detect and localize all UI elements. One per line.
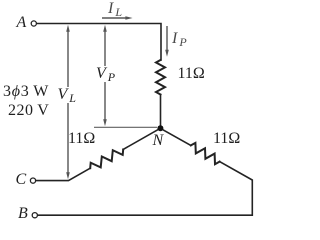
terminal A (31, 21, 36, 26)
voltage arrow VP (double-headed) (104, 30, 106, 121)
label terminal C (16, 172, 27, 188)
terminal C (30, 178, 35, 183)
label source rating 3-phase 3-wire (3, 84, 49, 100)
voltage arrow VL (double-headed) (67, 30, 69, 174)
current arrow IL (102, 17, 127, 19)
label source voltage 220V (8, 103, 49, 119)
node N junction dot (157, 125, 163, 131)
label resistor value 11ohm (right) (213, 131, 240, 147)
wire: node N to right resistor (160, 128, 191, 145)
wire: right resistor to corner, down, and bottom wire to terminal B (38, 162, 252, 216)
label terminal B (18, 206, 28, 222)
label resistor value 11ohm (vertical) (178, 66, 205, 82)
resistor R-A 11ohm (vertical zigzag) (156, 60, 165, 95)
label current IP (172, 31, 187, 47)
resistor R-B 11ohm (right diagonal zigzag) (191, 143, 220, 164)
current arrow IP (166, 26, 168, 51)
leader line from node N for Vp reference (94, 126, 157, 128)
label voltage VL (57, 87, 77, 103)
label voltage VP (95, 66, 116, 82)
resistor R-C 11ohm (left diagonal zigzag) (90, 149, 123, 168)
wire: left resistor to corner C (36, 168, 90, 180)
wire: resistor bottom to node N (160, 95, 162, 129)
label current IL (108, 1, 122, 17)
wire: node N to left resistor (123, 128, 160, 149)
terminal B (32, 213, 37, 218)
label resistor value 11ohm (left) (68, 131, 95, 147)
label terminal A (17, 15, 27, 31)
wire A: top horizontal from terminal A to corner (37, 24, 161, 61)
label node N (153, 133, 164, 149)
